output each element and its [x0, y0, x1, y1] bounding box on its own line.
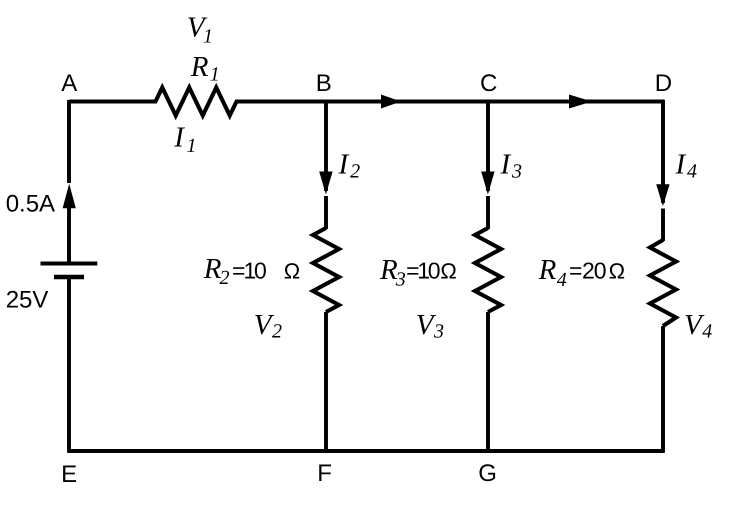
wire A down to current arrow	[67, 100, 71, 183]
wire B down to I2 arrow	[324, 100, 328, 191]
svg-text:25V: 25V	[6, 287, 49, 314]
bottom rail F to G	[325, 449, 490, 453]
current arrow 0.5A (up)	[63, 184, 76, 209]
svg-text:Ω: Ω	[284, 259, 300, 284]
svg-text:F: F	[317, 460, 332, 487]
svg-text:1: 1	[210, 64, 220, 86]
svg-text:0.5A: 0.5A	[6, 191, 55, 218]
svg-text:R: R	[538, 254, 557, 286]
resistor R1	[156, 88, 237, 116]
svg-text:G: G	[478, 460, 497, 487]
svg-text:I: I	[500, 148, 512, 180]
resistor R3	[475, 228, 501, 312]
wire I4 to R4	[661, 209, 665, 242]
svg-text:1: 1	[187, 135, 197, 157]
battery positive plate	[41, 262, 98, 266]
svg-text:R: R	[190, 51, 209, 83]
battery negative plate	[54, 275, 84, 280]
current arrow I4 (down)	[656, 184, 669, 206]
svg-text:4: 4	[687, 161, 697, 183]
wire battery to E	[67, 279, 71, 453]
svg-text:E: E	[61, 461, 77, 488]
svg-text:C: C	[480, 70, 497, 97]
wire arrow to battery	[67, 206, 71, 262]
svg-text:2: 2	[350, 161, 360, 183]
wire R3 to G	[486, 312, 490, 453]
wire R2 to F	[324, 312, 328, 453]
svg-text:3: 3	[395, 269, 406, 291]
svg-text:I: I	[675, 148, 687, 180]
svg-text:=10: =10	[232, 258, 267, 284]
svg-text:3: 3	[511, 161, 522, 183]
svg-text:=10: =10	[406, 258, 440, 284]
resistor R4	[650, 240, 676, 326]
svg-text:1: 1	[203, 25, 213, 47]
svg-text:2: 2	[272, 321, 282, 343]
svg-text:I: I	[338, 148, 350, 180]
resistor R2	[313, 228, 339, 312]
wire D down to I4 arrow	[661, 100, 665, 203]
svg-text:A: A	[61, 70, 77, 97]
flow arrow B to C	[381, 95, 401, 109]
current arrow I2 (down)	[319, 172, 332, 195]
wire C to D	[487, 100, 665, 104]
bottom rail E to F	[68, 449, 328, 453]
wire I2 to R2	[324, 196, 328, 229]
flow arrow C to D	[569, 95, 592, 109]
svg-text:=20: =20	[569, 258, 607, 284]
svg-text:2: 2	[220, 267, 230, 289]
wire R4 to bottom rail	[661, 326, 665, 453]
svg-text:Ω: Ω	[440, 259, 456, 284]
wire top rail A to R1	[69, 100, 157, 104]
svg-text:I: I	[173, 122, 185, 154]
bottom rail G to D leg	[487, 449, 665, 453]
wire I3 to R3	[486, 196, 490, 229]
svg-text:Ω: Ω	[609, 259, 625, 284]
wire C down to I3 arrow	[486, 100, 490, 191]
wire B to C	[325, 100, 490, 104]
svg-text:B: B	[316, 70, 332, 97]
current arrow I3 (down)	[481, 172, 494, 195]
svg-text:4: 4	[702, 321, 712, 343]
svg-text:3: 3	[433, 321, 444, 343]
svg-text:D: D	[655, 70, 672, 97]
wire R1 to B	[235, 100, 328, 104]
svg-text:4: 4	[557, 269, 567, 291]
